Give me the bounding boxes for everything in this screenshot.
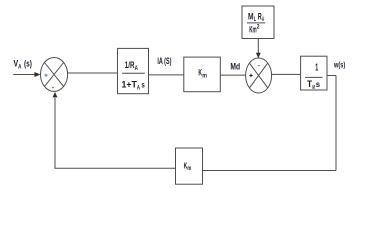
svg-text:A: A [18, 64, 22, 71]
svg-text:IA (S): IA (S) [157, 56, 171, 66]
svg-text:s: s [141, 80, 145, 89]
svg-text:(s): (s) [24, 59, 32, 69]
svg-text:M: M [312, 85, 315, 91]
svg-text:1: 1 [315, 63, 318, 74]
svg-text:L: L [254, 17, 257, 23]
svg-text:m: m [202, 73, 207, 80]
svg-text:Md: Md [230, 61, 240, 71]
svg-text:1+T: 1+T [122, 79, 138, 89]
svg-text:Km: Km [249, 24, 257, 34]
svg-text:w(s): w(s) [333, 60, 345, 69]
svg-text:A: A [262, 17, 265, 23]
svg-text:s: s [316, 80, 321, 89]
svg-text:1/R: 1/R [125, 60, 135, 70]
svg-text:A: A [135, 65, 139, 72]
svg-text:A: A [137, 85, 140, 92]
svg-text:m: m [187, 166, 191, 172]
